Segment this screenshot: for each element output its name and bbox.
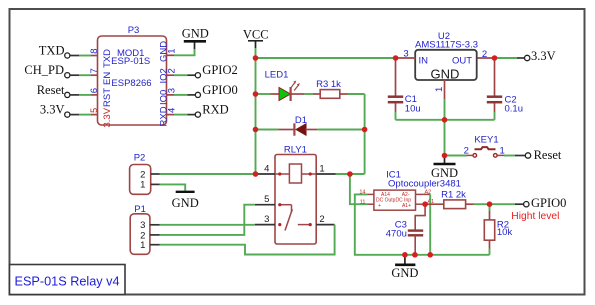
junction C2 top xyxy=(492,55,498,61)
P3 pin 4 RXD xyxy=(166,103,229,118)
connector P2 xyxy=(130,153,160,195)
ground symbol under P2 xyxy=(172,192,199,210)
P3 pin 7 CH_PD xyxy=(24,63,100,78)
svg-text:VCC: VCC xyxy=(243,27,269,41)
svg-text:5: 5 xyxy=(264,194,269,205)
junction rail C3 xyxy=(412,252,418,258)
U2 pin 1 xyxy=(444,80,446,99)
relay pin 4 xyxy=(256,173,276,175)
svg-text:470u: 470u xyxy=(386,229,407,240)
junction IC1 A1 xyxy=(422,201,428,207)
wire rail down to GND row xyxy=(444,120,446,156)
node Reset xyxy=(525,148,562,162)
svg-text:GND: GND xyxy=(182,27,209,41)
svg-text:2: 2 xyxy=(166,68,177,73)
svg-text:KEY1: KEY1 xyxy=(474,135,498,146)
svg-text:GND: GND xyxy=(391,266,418,280)
svg-text:GPIO0: GPIO0 xyxy=(202,83,237,97)
svg-text:1: 1 xyxy=(166,49,177,54)
svg-text:3: 3 xyxy=(166,88,177,93)
svg-text:RXD: RXD xyxy=(202,103,228,117)
svg-text:ESP-01S Relay v4: ESP-01S Relay v4 xyxy=(15,275,120,289)
svg-text:OUT: OUT xyxy=(452,56,472,67)
svg-text:P2: P2 xyxy=(134,153,146,164)
svg-text:3.3V: 3.3V xyxy=(531,49,556,63)
wire VCC vertical rail xyxy=(255,58,257,174)
title block box xyxy=(10,265,126,295)
wire P2 pin2 to VCC rail xyxy=(160,173,256,175)
relay switch xyxy=(280,204,292,206)
wire top rail VCC to U2 xyxy=(256,57,396,59)
svg-text:8: 8 xyxy=(89,49,100,54)
svg-text:+: + xyxy=(378,203,381,209)
relay coil xyxy=(289,164,301,183)
capacitor C2 0.1u xyxy=(487,58,523,120)
svg-text:GPIO2: GPIO2 xyxy=(202,63,237,77)
svg-text:5: 5 xyxy=(89,108,99,113)
svg-text:Hight level: Hight level xyxy=(511,211,559,222)
svg-text:R1 2k: R1 2k xyxy=(441,189,466,200)
resistor R1 2k xyxy=(425,189,489,208)
svg-text:1: 1 xyxy=(140,180,145,191)
svg-text:LED1: LED1 xyxy=(265,70,289,81)
svg-text:2: 2 xyxy=(464,145,469,156)
junction D1 row xyxy=(253,127,259,133)
junction IC1 pin11 branch xyxy=(347,171,353,177)
svg-text:3: 3 xyxy=(403,49,408,60)
wire P2 pin1 to ground xyxy=(160,184,186,190)
svg-text:CH_PD: CH_PD xyxy=(24,63,64,77)
diode D1 xyxy=(256,115,365,136)
svg-text:4: 4 xyxy=(264,163,269,174)
svg-text:3.3V: 3.3V xyxy=(40,103,65,117)
node GPIO0 xyxy=(524,196,567,210)
IC1 pin 11 xyxy=(368,203,374,205)
svg-text:3.3V: 3.3V xyxy=(102,107,113,127)
power symbol VCC xyxy=(243,27,269,58)
ground symbol mid (U2) xyxy=(431,156,458,181)
relay pin 1 xyxy=(316,173,335,175)
relay RLY1 xyxy=(255,144,336,244)
junction R1 R2 GPIO0 xyxy=(487,201,493,207)
IC1 pin A1 xyxy=(416,203,426,205)
svg-text:Reset: Reset xyxy=(534,148,562,162)
wire C1-C2 bottom rail xyxy=(396,119,495,121)
P3 pin 6 Reset xyxy=(37,83,100,98)
svg-text:10k: 10k xyxy=(497,227,513,238)
wire junction to GPIO0 xyxy=(490,203,524,205)
svg-text:Reset: Reset xyxy=(37,83,65,97)
svg-text:2: 2 xyxy=(319,214,324,225)
capacitor C3 470u xyxy=(386,204,425,255)
relay pin 3 xyxy=(255,224,275,226)
junction U2 pin1 rail xyxy=(442,117,448,123)
junction rail GND xyxy=(402,252,408,258)
pushbutton KEY1 xyxy=(445,135,526,158)
wire 3.3V output xyxy=(495,57,525,59)
svg-text:10u: 10u xyxy=(405,103,421,114)
svg-text:GND: GND xyxy=(172,196,199,210)
svg-text:Optocoupler3481: Optocoupler3481 xyxy=(388,178,461,189)
resistor R3 1k xyxy=(313,79,365,98)
svg-text:11: 11 xyxy=(360,199,366,205)
svg-text:EN: EN xyxy=(102,72,113,85)
module P3 ESP-01S body xyxy=(98,25,170,128)
svg-text:1: 1 xyxy=(140,240,145,251)
wire IC1 pin14 to ground rail xyxy=(355,194,405,254)
ground symbol top (P3 pin1) xyxy=(182,27,209,42)
wire ground rail right xyxy=(405,254,490,256)
P3 pin 3 GPIO0 xyxy=(166,83,238,98)
svg-text:IN: IN xyxy=(419,56,429,67)
P3 pin 1 wire to GND xyxy=(166,41,195,56)
wire branch to IC1 pin 11 xyxy=(350,174,368,204)
wire P1 pin3 to relay pin3 xyxy=(160,224,255,226)
svg-text:A1+: A1+ xyxy=(402,203,411,209)
svg-text:GND: GND xyxy=(431,66,460,81)
svg-text:TXD: TXD xyxy=(39,44,65,58)
svg-text:1: 1 xyxy=(319,163,324,174)
svg-text:4: 4 xyxy=(166,108,177,113)
junction C1 top xyxy=(393,55,399,61)
wire IC1 A2 down to rail xyxy=(429,194,431,254)
junction D1 right xyxy=(362,127,368,133)
resistor R2 10k xyxy=(484,204,512,255)
wire relay pin1 to vertical xyxy=(336,173,365,175)
svg-text:GPIO0: GPIO0 xyxy=(531,196,566,210)
IC1 pin A2 xyxy=(416,193,431,195)
relay pin 2 xyxy=(316,224,334,226)
svg-text:TXD: TXD xyxy=(102,49,113,68)
wire U2 pin1 to rail xyxy=(444,99,446,120)
wire P1 pin1 to relay pin2 xyxy=(160,225,335,255)
node 3.3V xyxy=(525,49,556,63)
junction GND KEY1 row xyxy=(442,153,448,159)
svg-text:R3 1k: R3 1k xyxy=(316,79,341,90)
svg-text:7: 7 xyxy=(89,68,100,73)
capacitor C1 10u xyxy=(388,58,421,120)
optocoupler IC1 xyxy=(359,169,461,210)
IC1 pin 14 xyxy=(368,193,374,195)
svg-text:2: 2 xyxy=(482,49,487,60)
junction LED row xyxy=(253,91,259,97)
P3 pin 8 TXD xyxy=(39,44,100,59)
svg-text:3: 3 xyxy=(264,214,269,225)
wire P1 pin2 to relay pin5 xyxy=(160,205,255,235)
svg-text:1: 1 xyxy=(434,87,445,92)
ground symbol bottom (C3) xyxy=(391,255,418,280)
svg-text:6: 6 xyxy=(89,88,100,93)
svg-text:RST: RST xyxy=(102,88,113,107)
regulator U2 AMS1117S-3.3 xyxy=(396,31,495,99)
U2 pin 3 xyxy=(396,57,416,59)
connector P1 xyxy=(130,204,159,255)
svg-text:ESP8266: ESP8266 xyxy=(111,78,151,89)
svg-text:0.1u: 0.1u xyxy=(505,104,524,115)
junction relay pin4 row xyxy=(253,171,259,177)
junction rail A2 xyxy=(427,252,433,258)
P3 pin 2 GPIO2 xyxy=(166,63,238,78)
wire vertical R3/D1 to relay pin1 row xyxy=(364,94,366,174)
P3 pin 5 3.3V xyxy=(40,103,99,118)
LED LED1 xyxy=(256,70,314,102)
relay pin 5 xyxy=(255,204,275,206)
svg-text:P3: P3 xyxy=(128,25,140,36)
junction VCC top xyxy=(253,55,259,61)
svg-text:ESP-01S: ESP-01S xyxy=(111,56,150,67)
U2 pin 2 xyxy=(477,57,494,59)
